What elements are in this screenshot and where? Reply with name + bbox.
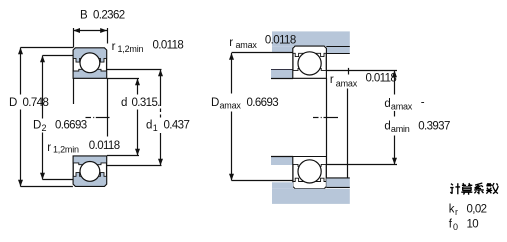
shaft top shoulder block (271, 70, 293, 79)
svg-text:D: D (33, 120, 41, 132)
extension line d1 top (107, 69, 162, 71)
ball lower (left drawing) (80, 162, 100, 182)
hanzi 算 (461, 183, 472, 195)
svg-text:d: d (384, 120, 390, 132)
svg-text:d: d (146, 120, 152, 132)
arrow d top (135, 79, 140, 86)
bearing top section outline (left drawing) (73, 48, 106, 78)
housing top left shoulder tab (272, 46, 293, 52)
ball lower (right drawing) (298, 160, 321, 183)
housing top main block (272, 31, 350, 46)
extension line B left (73, 28, 75, 48)
arrow da bottom (392, 158, 397, 165)
extension line d bottom (107, 155, 139, 157)
label d1 0.437 (146, 120, 189, 134)
svg-text:0.2362: 0.2362 (93, 9, 125, 21)
ball upper (left drawing) (80, 53, 100, 73)
tick on da extension (348, 68, 350, 75)
leader line ramax middle (347, 89, 349, 178)
shaft bottom block top edge (bore line) (271, 156, 293, 158)
extension line Damax bottom (232, 180, 294, 182)
svg-text:0.0118: 0.0118 (89, 140, 120, 152)
arrow d1 top (158, 70, 163, 77)
svg-text:0.6693: 0.6693 (247, 97, 279, 109)
bearing top section outline (right drawing) (293, 46, 326, 78)
arrow B right (100, 28, 107, 33)
housing top right shoulder (326, 46, 350, 53)
hanzi 系 (474, 183, 484, 194)
label ramax 0.0118 (top left) (229, 35, 296, 51)
housing right shoulder bottom line (326, 53, 350, 55)
svg-text:1,2min: 1,2min (118, 44, 144, 54)
svg-text:10: 10 (467, 219, 479, 231)
svg-text:0.3937: 0.3937 (418, 120, 450, 132)
svg-text:0.437: 0.437 (164, 120, 190, 132)
outer ring lower white band (293, 178, 326, 188)
svg-text:amin: amin (391, 124, 410, 134)
housing bottom right shoulder top line (326, 177, 350, 179)
label D 0.748 (9, 97, 48, 109)
svg-text:2: 2 (42, 123, 47, 133)
svg-text:amax: amax (336, 79, 358, 89)
label B 0.2362 (80, 9, 125, 21)
dimension line D2 (42, 56, 44, 180)
label kr 0,02 (449, 204, 487, 218)
housing bottom right shoulder (326, 178, 350, 187)
bearing bottom section outline (right drawing) (293, 157, 326, 189)
label r1,2min 0.0118 (top) (112, 39, 184, 54)
arrow D top (18, 48, 23, 55)
extension line D top (21, 47, 74, 49)
hanzi 计 (450, 183, 460, 194)
outer ring lower (blue) (73, 173, 106, 187)
centerline left drawing (86, 117, 110, 119)
svg-text:D: D (9, 97, 17, 109)
svg-text:0.0118: 0.0118 (265, 35, 296, 47)
hanzi 数 (486, 183, 498, 194)
label damin 0.3937 (384, 120, 450, 134)
svg-text:1,2min: 1,2min (53, 144, 79, 154)
extension line D2 top (43, 55, 74, 57)
dimension line d1 (160, 70, 162, 166)
arrow Damax bottom (229, 174, 234, 181)
bearing bottom section outline (left drawing) (73, 156, 106, 186)
inner ring lower (blue) (73, 156, 106, 165)
arrow da top (392, 71, 397, 78)
shaft top block top edge (271, 69, 293, 71)
dimension line damax/damin (394, 71, 396, 165)
ball upper (right drawing) (298, 52, 321, 75)
svg-text:B: B (80, 9, 88, 21)
outer ring upper white band (293, 46, 326, 56)
housing bottom left shoulder tab (272, 182, 293, 188)
centerline right drawing (313, 117, 338, 119)
inner ring upper white band (293, 69, 326, 79)
svg-text:r: r (229, 37, 233, 49)
svg-text:r: r (47, 142, 51, 154)
svg-text:1: 1 (153, 123, 158, 133)
extension line bearing right edge (right drawing) (326, 78, 328, 164)
extension line d1 bottom (107, 165, 162, 167)
label Damax 0.6693 (211, 97, 278, 111)
label d 0.315 (121, 97, 160, 109)
svg-text:d: d (384, 98, 390, 110)
extension line D2 bottom (43, 179, 73, 181)
dimension line B (73, 30, 107, 32)
arrow D2 bottom (40, 173, 45, 180)
svg-text:0: 0 (453, 222, 458, 232)
shaft bottom shoulder block (271, 157, 293, 166)
svg-text:amax: amax (220, 100, 242, 110)
label D2 0.6693 (33, 120, 87, 134)
svg-text:0.0118: 0.0118 (153, 39, 184, 51)
label damax - (384, 97, 424, 112)
dimension line d (137, 79, 139, 156)
inner ring upper (blue) (73, 69, 106, 78)
heading 计算系数 (hand-drawn strokes) (450, 183, 498, 195)
dimension line D (20, 48, 22, 187)
extension line B right (107, 28, 109, 44)
svg-text:-: - (421, 97, 425, 109)
svg-text:amax: amax (391, 102, 413, 112)
extension line Damax top (232, 52, 294, 54)
housing bottom main block (272, 189, 350, 204)
svg-text:r: r (455, 207, 458, 217)
svg-text:0.315.: 0.315. (132, 97, 161, 109)
svg-text:0,02: 0,02 (467, 204, 487, 216)
extension line D bottom (21, 186, 73, 188)
extension line da top (326, 70, 397, 72)
housing bore line bottom right (326, 186, 350, 188)
label ramax 0.0118 (middle) (330, 73, 397, 89)
svg-text:0.6693: 0.6693 (55, 120, 87, 132)
housing bore line right (326, 46, 350, 48)
arrow Damax top (229, 53, 234, 60)
svg-text:amax: amax (236, 40, 258, 50)
extension line bearing left edge (73, 78, 75, 104)
svg-text:0.0118: 0.0118 (366, 73, 397, 85)
svg-text:d: d (121, 97, 127, 109)
svg-text:r: r (112, 41, 116, 53)
label f0 10 (449, 219, 478, 233)
shaft top block bottom edge (bore line) (271, 78, 293, 80)
svg-text:0.748: 0.748 (23, 97, 49, 109)
arrow D2 top (40, 56, 45, 63)
label r1,2min 0.0118 (bottom) (47, 140, 119, 155)
inner ring lower white band (293, 157, 326, 167)
svg-text:k: k (449, 204, 455, 216)
arrow D bottom (18, 180, 23, 187)
arrow d bottom (135, 149, 140, 156)
arrow B left (73, 28, 80, 33)
extension line da bottom (326, 164, 397, 166)
extension line bearing right edge (107, 78, 109, 136)
extension line d top (107, 78, 139, 80)
svg-text:D: D (211, 97, 219, 109)
svg-text:r: r (330, 74, 334, 86)
arrow d1 bottom (158, 159, 163, 166)
outer ring upper (blue) (73, 48, 106, 62)
dimension line Damax (231, 53, 233, 181)
